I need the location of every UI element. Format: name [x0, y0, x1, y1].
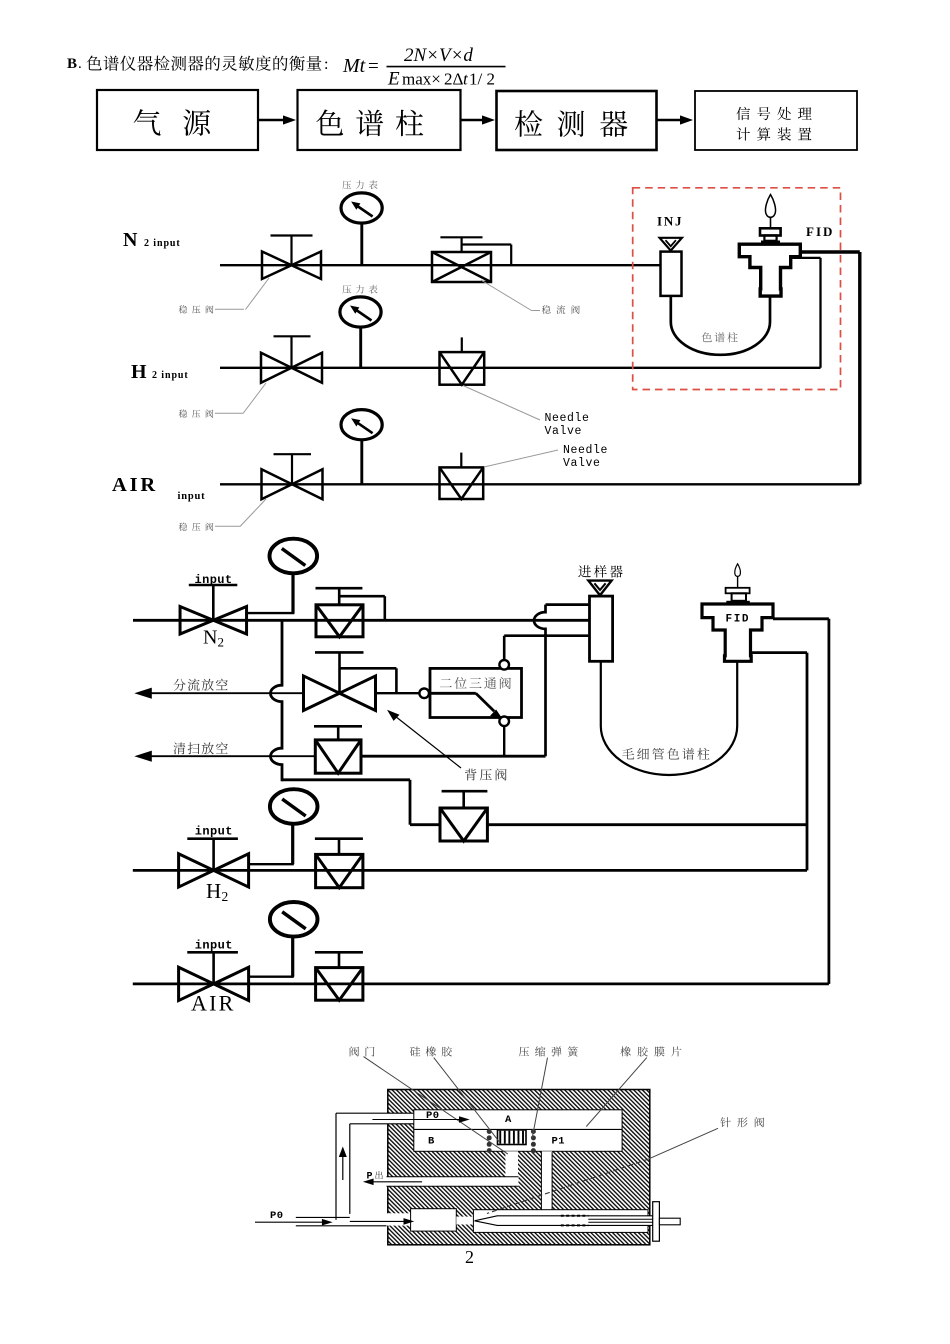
svg-text:input: input	[178, 491, 206, 502]
wire N2-2 main line	[133, 619, 591, 622]
svg-text:2 input: 2 input	[144, 238, 181, 249]
P1 drop slot	[541, 1151, 552, 1209]
spring dots left	[487, 1129, 492, 1153]
valve 二位三通阀 box	[430, 668, 522, 717]
gauge H2-2	[249, 863, 294, 865]
svg-text:H: H	[206, 879, 221, 903]
svg-text:P0: P0	[270, 1210, 284, 1222]
label 稳压阀 AIR	[179, 523, 214, 531]
detector FID-2 wick	[737, 575, 739, 588]
label 分流放空	[173, 679, 227, 691]
svg-text:P1: P1	[552, 1136, 566, 1148]
label 清扫放空	[173, 742, 227, 754]
arrow P出	[370, 1181, 422, 1183]
gauge N2-2	[246, 612, 294, 614]
spring dots right	[531, 1129, 536, 1153]
flowchart arrow 2	[461, 119, 484, 122]
inlet slot top	[387, 1113, 415, 1124]
valve 稳流阀 (X box)	[461, 237, 463, 252]
formula fraction bar	[387, 66, 506, 68]
svg-text:Valve: Valve	[563, 457, 601, 470]
svg-text:=: =	[368, 56, 379, 77]
orifice	[456, 1217, 473, 1225]
svg-text:1/ 2: 1/ 2	[469, 70, 495, 89]
valve 稳压阀 N2 (bowtie)	[290, 236, 292, 266]
detector FID-2 body	[702, 604, 773, 661]
svg-text:max×: max×	[402, 70, 441, 89]
svg-text:input: input	[195, 939, 233, 953]
gauge 压力表 H2	[342, 285, 377, 294]
wire H2 main line	[220, 367, 821, 369]
wire manifold to back-pressure valve	[282, 778, 410, 781]
chamber B cavity	[414, 1129, 622, 1151]
wire 3-way top port to injector	[503, 636, 506, 660]
flowchart box 气源	[97, 90, 258, 150]
leader 硅橡胶	[434, 1058, 499, 1142]
svg-text:E: E	[387, 69, 400, 90]
flowchart box 色谱柱	[298, 90, 461, 150]
valve AIR-2 inlet (bowtie)	[212, 952, 215, 984]
valve body hatched block	[388, 1090, 650, 1245]
leader 橡胶膜片	[586, 1058, 647, 1127]
svg-text:FID: FID	[806, 224, 834, 239]
valve needle AIR-2 (box V)	[338, 952, 341, 967]
arrow 清扫放空	[150, 755, 316, 757]
valve back-pressure needle (box V)	[462, 791, 465, 808]
svg-text:B: B	[67, 56, 77, 72]
label 背压阀	[465, 769, 507, 781]
needle flange plates	[653, 1202, 660, 1242]
chamber outline	[414, 1110, 622, 1152]
needle chamber	[473, 1210, 648, 1233]
wire purge line to corner	[361, 755, 546, 758]
svg-text:2 input: 2 input	[152, 370, 189, 381]
svg-text:2: 2	[465, 1247, 474, 1267]
wire AIR main line	[220, 483, 860, 485]
leader 针形阀	[648, 1128, 718, 1159]
flowchart box 检测器	[497, 91, 657, 150]
detector FID-2 flame	[735, 564, 741, 577]
silicone rubber striped block	[498, 1130, 527, 1145]
svg-text:Needle: Needle	[545, 412, 590, 425]
wire FID top output to AIR	[800, 250, 860, 253]
arrow P0 chamber A	[372, 1119, 464, 1121]
svg-text:A: A	[505, 1114, 512, 1126]
flowchart arrow 1	[259, 119, 285, 122]
external pipe loop	[336, 1112, 414, 1114]
valve needle N2-2 (box V)	[338, 588, 341, 605]
svg-text:input: input	[195, 825, 233, 839]
injector funnel	[588, 581, 611, 596]
valve passage slot	[505, 1151, 518, 1177]
svg-text:Needle: Needle	[563, 444, 608, 457]
outlet channel P出	[387, 1177, 519, 1187]
labels top row	[350, 1046, 375, 1056]
injector INJ funnel	[660, 238, 682, 251]
flowchart arrow 3	[657, 119, 681, 122]
valve H2-2 inlet (bowtie)	[212, 839, 215, 871]
bottom cavity	[411, 1209, 457, 1231]
valve split (bowtie)	[338, 652, 341, 693]
svg-text:2Δ: 2Δ	[444, 70, 464, 89]
valve N2-2 inlet (bowtie)	[212, 585, 215, 620]
injector body	[590, 596, 613, 661]
detector FID-2 chimney	[726, 601, 750, 604]
label 色谱柱	[702, 332, 738, 342]
valve purge needle (box V)	[337, 726, 340, 740]
needle 针形阀	[475, 1216, 660, 1226]
valve 稳压阀 H2 (bowtie)	[290, 336, 292, 368]
injector INJ body	[661, 252, 682, 296]
valve needle AIR (box V)	[460, 453, 462, 467]
membrane line	[414, 1128, 622, 1130]
detector FID body	[739, 244, 800, 296]
detector FID chimney	[761, 241, 780, 245]
svg-text:N: N	[203, 627, 217, 649]
label 稳压阀 N2	[179, 305, 214, 313]
leader 压缩弹簧	[532, 1058, 548, 1139]
svg-text::: :	[324, 56, 328, 73]
valve needle H2-2 (box V)	[338, 839, 341, 855]
svg-text:2: 2	[222, 889, 229, 904]
wire H2 riser to FID	[806, 653, 809, 871]
svg-text:2N×V×d: 2N×V×d	[404, 45, 473, 66]
detector FID flame	[765, 195, 775, 218]
wire 3-way bottom port down	[503, 726, 505, 756]
label 进样器	[578, 565, 622, 577]
bottom inlet channel	[387, 1213, 411, 1225]
leader 阀门	[364, 1057, 508, 1155]
3-way valve ports	[419, 689, 429, 699]
svg-text:AIR: AIR	[112, 474, 158, 496]
arrow P0 inside	[350, 1220, 406, 1222]
svg-text:N: N	[123, 229, 138, 251]
svg-text:AIR: AIR	[191, 991, 236, 1016]
svg-text:input: input	[195, 573, 233, 587]
arrow 背压阀 pointer	[391, 713, 462, 769]
label 稳流阀	[542, 305, 580, 314]
label 稳压阀 H2	[179, 409, 214, 417]
label 针形阀	[720, 1117, 764, 1127]
gauge AIR	[360, 439, 363, 484]
arrow P0 outside	[255, 1221, 324, 1223]
manifold vertical with hops	[270, 620, 282, 781]
svg-text:H: H	[131, 361, 147, 383]
valve needle H2 (box V)	[461, 337, 463, 352]
svg-text:2: 2	[218, 635, 225, 650]
flowchart box 信号处理计算装置	[695, 91, 857, 150]
wire AIR-2 main line	[133, 983, 829, 986]
chamber A cavity	[414, 1110, 622, 1130]
needle shaft lines	[588, 1218, 659, 1220]
arrow 分流放空	[150, 692, 304, 694]
detector FID flame wick	[770, 216, 772, 228]
gauge AIR-2	[249, 976, 294, 978]
wire split valve to 3-way valve	[376, 692, 420, 694]
wire P0 bottom pipe	[296, 1216, 350, 1218]
capillary column U-tube	[601, 661, 737, 775]
wire FID side to H2	[791, 257, 821, 259]
column 色谱柱 U-tube	[671, 296, 770, 355]
needle end cap	[659, 1218, 680, 1225]
svg-text:Valve: Valve	[545, 425, 583, 438]
arrow up in pipe	[342, 1152, 344, 1180]
wire injector line A with hop	[546, 603, 591, 606]
svg-text:Mt: Mt	[342, 55, 366, 77]
svg-text:B: B	[428, 1136, 435, 1148]
svg-text:FID: FID	[726, 614, 751, 626]
wire AIR riser to FID top	[828, 619, 831, 984]
3-way valve internal arrow	[430, 692, 476, 695]
valve 稳压阀 AIR (bowtie)	[291, 454, 293, 484]
svg-text:INJ: INJ	[657, 214, 683, 229]
wire H2-2 main line	[133, 869, 807, 872]
gauge 压力表 N2	[342, 180, 377, 189]
wire N2 main line	[220, 264, 661, 266]
label 毛细管色谱柱	[622, 748, 710, 760]
svg-text:.: .	[78, 56, 82, 72]
dashed red boundary box	[633, 188, 841, 390]
wire back-pressure to FID junction	[487, 823, 807, 826]
